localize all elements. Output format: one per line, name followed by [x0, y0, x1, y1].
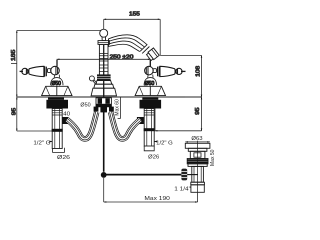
arrows 155 [104, 19, 161, 21]
left handle knob [22, 68, 28, 74]
svg-text:Max 190: Max 190 [144, 196, 170, 202]
left hose tee nut [62, 117, 68, 124]
drain tailpipe [192, 166, 204, 182]
right deck tick [185, 96, 202, 98]
drain upper ring [188, 148, 207, 151]
dimension 108/95 right vertical line [201, 55, 203, 131]
right valve stem top [149, 60, 151, 66]
svg-text:Ø50: Ø50 [80, 103, 90, 109]
hose union tabs [94, 107, 99, 112]
left shank locknut band [52, 129, 63, 132]
svg-text:Ø26: Ø26 [57, 155, 70, 161]
svg-text:95: 95 [12, 108, 18, 115]
Max 60 extension line [120, 97, 122, 118]
aerator on spout end [140, 44, 159, 61]
bell tier 1 [96, 81, 112, 85]
bell tier 2 [94, 84, 114, 88]
dimension 155 line [104, 18, 161, 20]
dimension 185 top tick to spout finial [17, 30, 101, 32]
right base seal [142, 98, 158, 100]
arrows right vertical [201, 55, 203, 130]
extension line from aerator to 108 dim [160, 54, 201, 56]
deck / counter line [17, 96, 202, 98]
drain clamp [181, 169, 187, 181]
dimension 250+-20 line [57, 59, 150, 66]
extension below ball joint [103, 178, 105, 202]
left valve neck [48, 69, 51, 73]
left escutcheon dome [51, 78, 63, 86]
drain flange [185, 143, 210, 148]
left handle porcelain barrel [29, 66, 44, 76]
aerator head [146, 48, 159, 61]
pop-up lift knob [89, 76, 94, 81]
arrow right 95 extension [155, 130, 157, 132]
right diameter 26 bracket [144, 146, 154, 151]
right handle knob [176, 68, 182, 74]
svg-text:155: 155 [129, 11, 140, 17]
svg-text:95: 95 [195, 107, 201, 114]
drain locknut dark bands [187, 159, 208, 161]
lift rod through column [103, 45, 105, 97]
diameter 63 dimension line [185, 141, 210, 143]
right shank locknut band [144, 128, 155, 131]
pop-up rod vertical [103, 109, 105, 172]
aerator joint bands [140, 44, 149, 53]
right valve stem below [148, 75, 153, 78]
right handle pin [181, 70, 186, 72]
drain centerline [197, 141, 199, 193]
left handle pin [20, 70, 23, 72]
pop-up horizontal rod [104, 174, 182, 176]
arrows left vertical [16, 31, 18, 132]
right mounting nut [140, 100, 162, 109]
column rings [99, 53, 108, 71]
dimension 95 bottom tick [17, 130, 52, 132]
svg-text:1 1/4": 1 1/4" [174, 187, 191, 193]
drain bottom extension [197, 192, 199, 202]
left mounting nut [46, 100, 68, 109]
svg-text:185: 185 [11, 50, 17, 61]
svg-text:Max 60: Max 60 [115, 99, 121, 116]
column body [99, 44, 108, 78]
drain body [190, 151, 205, 158]
left valve stem top [56, 60, 58, 66]
right handle collar [158, 66, 160, 76]
left handle collar [45, 66, 47, 76]
svg-text:Ø26: Ø26 [148, 154, 159, 160]
spout base collar nut [97, 74, 111, 80]
drain washer ring [188, 164, 207, 167]
left base seal [48, 98, 64, 100]
left escutcheon trapezoid [42, 86, 72, 95]
right valve neck [153, 69, 156, 73]
dimension Max 190 line [104, 201, 198, 203]
svg-text:1/2" G: 1/2" G [33, 140, 50, 146]
left diameter 26 bracket [53, 148, 65, 153]
right 95 bottom extension [155, 103, 202, 131]
svg-text:Max 50: Max 50 [210, 149, 216, 166]
rod into drain [182, 174, 198, 176]
right hose tee nut [137, 117, 144, 124]
center shank block [94, 98, 114, 113]
drain locknut [187, 159, 208, 164]
spout tube [108, 35, 147, 52]
leader arrow left 1/2 G [50, 141, 53, 143]
tailpipe joint nut [191, 182, 205, 185]
right escutcheon dome [144, 78, 156, 86]
left valve ball [51, 66, 60, 75]
right flex hose [111, 112, 141, 139]
tailpipe lower section [191, 185, 204, 193]
svg-text:108: 108 [195, 66, 201, 77]
finial ball on spout top [100, 29, 108, 37]
dimension 155 right extension [159, 19, 161, 55]
pop-up rod ball joint [101, 172, 107, 178]
collar flare [98, 41, 109, 45]
leader arrow right 1/2 G [154, 141, 157, 143]
right escutcheon trapezoid [135, 86, 165, 95]
small dimension arrowheads [16, 19, 202, 132]
dimension 185 left vertical line [16, 31, 18, 132]
svg-text:1/2" G: 1/2" G [156, 141, 173, 147]
svg-text:Ø63: Ø63 [191, 136, 202, 142]
left threaded shank [52, 109, 62, 149]
right handle porcelain barrel [160, 66, 175, 76]
svg-text:250 ±20: 250 ±20 [110, 54, 134, 60]
center escutcheon trapezoid [91, 88, 116, 96]
arrows 250 [57, 59, 150, 61]
finial neck [102, 37, 106, 41]
left flex hose [67, 112, 97, 139]
svg-text:40: 40 [63, 111, 70, 117]
left valve stem below [54, 75, 59, 78]
right threaded shank [144, 109, 154, 147]
dimension 155 left extension [103, 19, 105, 29]
tick at handle-top level [11, 63, 17, 65]
right valve ball [145, 66, 154, 75]
spout root edge [108, 39, 110, 47]
